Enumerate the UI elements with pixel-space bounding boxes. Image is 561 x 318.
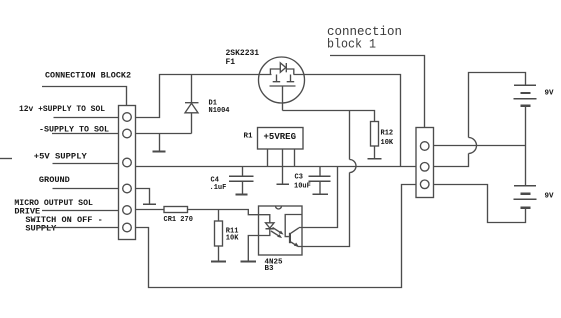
wire battery B1 minus to B2 plus xyxy=(525,106,527,186)
wire -SUPPLY label to J2 pin 2 xyxy=(52,133,119,135)
svg-text:-SUPPLY TO SOL: -SUPPLY TO SOL xyxy=(39,124,109,134)
wire 12V label to J2 pin 1 xyxy=(54,117,119,119)
svg-text:R1: R1 xyxy=(244,133,254,141)
ground on -SUPPLY wire xyxy=(153,134,166,152)
svg-text:CONNECTION BLOCK2: CONNECTION BLOCK2 xyxy=(45,71,131,81)
wire J2 pin 5 to CR1 xyxy=(136,209,165,211)
wire REG output leg to bus xyxy=(294,149,296,167)
svg-text:N1004: N1004 xyxy=(209,107,230,115)
battery B1 9V xyxy=(514,85,537,106)
svg-text:10K: 10K xyxy=(381,139,394,147)
label C4 .1uF xyxy=(210,177,227,193)
label MICRO OUTPUT SOL DRIVE xyxy=(14,198,93,217)
label connection block 1 xyxy=(327,25,402,52)
svg-text:9V: 9V xyxy=(545,89,555,97)
wire +5V label to J2 pin 3 xyxy=(53,163,119,165)
svg-text:12v +SUPPLY TO SOL: 12v +SUPPLY TO SOL xyxy=(19,104,105,114)
wire SWITCH label to J2 pin 6 xyxy=(39,227,119,229)
ground below R11 xyxy=(211,246,226,262)
svg-text:10K: 10K xyxy=(226,235,239,243)
resistor R12 xyxy=(371,122,379,147)
connection block J2 pins xyxy=(123,113,132,232)
optocoupler B3 4N25 xyxy=(248,206,302,261)
capacitor C3 xyxy=(309,167,331,194)
svg-text:10uF: 10uF xyxy=(294,183,311,191)
label 4N25 B3 xyxy=(265,258,284,273)
wire battery B2 minus to J1 pin 3 xyxy=(434,185,526,223)
wire J2 pin 1 to FET gate xyxy=(136,75,272,118)
svg-text:block 1: block 1 xyxy=(327,38,376,52)
wire FET source node to R12 xyxy=(283,111,375,122)
svg-text:2SK2231: 2SK2231 xyxy=(226,49,260,58)
label C3 10uF xyxy=(294,174,311,191)
ground below C3 xyxy=(312,193,327,195)
wire J1 pin 1 to battery junction xyxy=(434,145,526,147)
wire MICRO label to J2 pin 5 xyxy=(42,210,119,212)
wire REG ground leg xyxy=(282,149,284,184)
connection block J2 body xyxy=(119,106,136,240)
wire GROUND label to J2 pin 4 xyxy=(53,188,119,190)
ground symbol at J2 pin 4 xyxy=(143,203,156,205)
svg-text:.1uF: .1uF xyxy=(210,184,227,192)
label D1 N1004 xyxy=(209,100,230,116)
ground at opto LED cathode xyxy=(241,261,257,263)
wire opto emitter to FET source node (hop over bus) xyxy=(302,111,357,247)
ground below C4 xyxy=(236,194,248,196)
svg-text:F1: F1 xyxy=(226,58,236,67)
resistor CR1 xyxy=(164,207,188,213)
wire CR1 to optocoupler pin 1 xyxy=(188,210,259,215)
label SWITCH ON OFF - SUPPLY xyxy=(25,215,102,233)
stray wire stub at left edge xyxy=(0,158,12,160)
wire J2 pin 4 to ground xyxy=(136,189,150,205)
svg-text:GROUND: GROUND xyxy=(39,175,70,185)
wire FET drain to +5V bus riser xyxy=(294,75,401,167)
ground below REG xyxy=(277,183,290,185)
label 2SK2231 F1 xyxy=(226,49,260,67)
ground below R12 xyxy=(368,146,382,159)
transistor F1 2SK2231 (MOSFET) xyxy=(259,57,305,111)
regulator R1 +5VREG xyxy=(258,128,304,150)
svg-text:9V: 9V xyxy=(545,193,555,201)
wire label leader to connection block 2 xyxy=(42,87,127,106)
connection block J1 pins xyxy=(420,142,429,189)
wire J2 pin 6 bottom return to J1 pin 3 xyxy=(136,185,417,288)
svg-text:+5VREG: +5VREG xyxy=(264,132,297,142)
svg-text:C3: C3 xyxy=(295,174,303,182)
wire opto collector to +5V bus xyxy=(302,167,338,228)
wire REG input leg to bus xyxy=(267,149,269,167)
wire J1 pin 2 to battery B1 plus (hop over pin1 wire) xyxy=(434,73,526,167)
svg-text:SUPPLY: SUPPLY xyxy=(25,223,57,233)
svg-text:+5V SUPPLY: +5V SUPPLY xyxy=(34,151,88,161)
wire J2 pin 2 to diode D1 anode xyxy=(136,133,192,135)
svg-text:CR1 270: CR1 270 xyxy=(164,216,193,224)
capacitor C4 xyxy=(229,167,254,195)
wire label leader to connection block 1 xyxy=(330,56,425,128)
battery B2 9V xyxy=(514,186,537,208)
label R11 10K xyxy=(226,228,239,243)
svg-text:R12: R12 xyxy=(381,130,394,138)
label R12 10K xyxy=(381,130,394,148)
diode D1 xyxy=(185,75,199,134)
resistor R11 xyxy=(215,210,223,247)
wire +5V bus xyxy=(136,166,417,168)
svg-text:B3: B3 xyxy=(265,265,275,273)
connection block J1 body xyxy=(416,128,434,198)
